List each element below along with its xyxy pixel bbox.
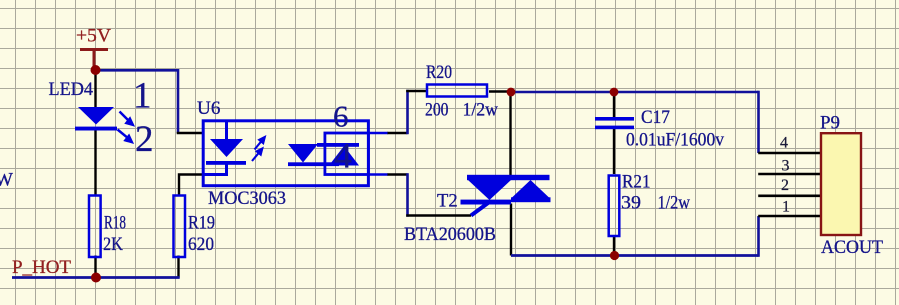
wire U6 pin4 out xyxy=(387,173,408,175)
svg-text:620: 620 xyxy=(188,234,214,255)
wire C17 top xyxy=(613,92,615,117)
LED4 emission arrow 1 xyxy=(120,112,133,125)
wire R19 bottom to P_HOT rail xyxy=(177,256,179,278)
svg-text:U6: U6 xyxy=(197,98,220,119)
svg-text:C17: C17 xyxy=(641,107,670,128)
capacitor C17 xyxy=(595,117,634,129)
wire R18 bottom to P_HOT rail xyxy=(94,256,96,278)
resistor R20 xyxy=(427,85,487,97)
wire LED4 cathode to R18 xyxy=(94,131,96,195)
node junction R21 bottom xyxy=(610,251,619,260)
LED4 emission arrow 2 xyxy=(118,130,132,143)
node junction +5V/LED4 xyxy=(91,65,101,75)
U6 detector inner box xyxy=(325,133,369,175)
wire T2 MT1 down to bottom rail xyxy=(510,204,512,256)
U6 coupling arrow 2 xyxy=(252,149,262,162)
svg-text:P9: P9 xyxy=(820,113,840,134)
wire top rail R20 to P9 drop xyxy=(511,91,759,94)
svg-text:P_HOT: P_HOT xyxy=(12,257,71,278)
svg-text:6: 6 xyxy=(333,99,349,134)
wire P9 pin 2 xyxy=(758,195,821,198)
svg-text:R18: R18 xyxy=(104,213,126,234)
wire pin4 down to gate row xyxy=(406,173,409,217)
wire R20 right to junction xyxy=(489,90,511,92)
wire bottom rail xyxy=(511,254,759,257)
node junction C17 top xyxy=(610,88,619,97)
U6 pin 6 stub xyxy=(369,132,388,135)
U6 internal triac xyxy=(288,143,359,166)
optocoupler U6 body xyxy=(203,121,368,186)
svg-text:200: 200 xyxy=(425,100,449,121)
wire vertical pin6 riser xyxy=(406,90,409,134)
svg-text:ACOUT: ACOUT xyxy=(821,237,883,258)
node junction P_HOT/R18 xyxy=(91,273,101,283)
wire P9 pin 3 xyxy=(758,173,821,176)
U6 pin 4 stub xyxy=(369,173,388,176)
wire +5V rail vertical to U6 pin1 xyxy=(177,69,180,133)
wire +5V rail horizontal xyxy=(96,69,179,72)
svg-text:R20: R20 xyxy=(426,62,452,83)
svg-text:MOC3063: MOC3063 xyxy=(208,188,286,209)
resistor R19 xyxy=(174,196,186,258)
resistor R21 xyxy=(609,176,620,237)
LED LED4 xyxy=(75,107,117,131)
resistor R18 xyxy=(89,196,101,258)
wire R21 bottom to rail xyxy=(613,237,615,256)
svg-text:4: 4 xyxy=(334,136,352,176)
node junction R20 right xyxy=(507,88,516,97)
svg-text:1: 1 xyxy=(782,199,790,216)
svg-text:R21: R21 xyxy=(622,172,651,193)
svg-text:BTA20600B: BTA20600B xyxy=(404,224,496,245)
power +5V xyxy=(80,50,108,67)
wire U6 pin2 to R19 xyxy=(179,175,204,195)
svg-text:4: 4 xyxy=(780,135,788,152)
wire P9 pin 4 xyxy=(758,152,821,155)
svg-text:39: 39 xyxy=(621,193,641,214)
wire P_HOT rail xyxy=(12,276,180,279)
svg-text:1: 1 xyxy=(133,76,152,117)
svg-text:1/2w: 1/2w xyxy=(658,193,691,214)
wire C17 to R21 xyxy=(613,129,615,174)
svg-text:0.01uF/1600v: 0.01uF/1600v xyxy=(626,130,724,151)
wire U6 pin6 to R20 xyxy=(387,132,408,134)
T2 gate diagonal xyxy=(471,203,488,216)
U6 coupling arrow 1 xyxy=(255,137,265,150)
wire T2 MT2 from top junction xyxy=(509,92,511,175)
svg-text:T2: T2 xyxy=(437,191,458,212)
transistor T2 triac xyxy=(461,175,551,205)
wire bottom rail up to P9 pin1 xyxy=(757,216,760,257)
connector P9 xyxy=(821,133,861,235)
svg-text:1/2w: 1/2w xyxy=(463,100,499,121)
svg-text:W: W xyxy=(0,170,13,191)
svg-text:2: 2 xyxy=(781,177,789,194)
svg-text:3: 3 xyxy=(782,158,790,175)
svg-text:LED4: LED4 xyxy=(49,79,94,100)
wire into U6 pin 1 xyxy=(177,132,204,134)
svg-text:2K: 2K xyxy=(103,234,123,255)
U6 internal LED xyxy=(204,121,246,176)
wire LED4 anode xyxy=(94,70,96,107)
wire P9 pin 1 xyxy=(758,215,821,218)
wire gate row to T2 xyxy=(406,214,471,216)
svg-text:+5V: +5V xyxy=(76,26,111,47)
wire riser to R20 left xyxy=(406,90,427,92)
svg-text:2: 2 xyxy=(135,119,154,160)
wire drop to P9 pin4 xyxy=(757,91,760,153)
svg-text:R19: R19 xyxy=(188,213,215,234)
